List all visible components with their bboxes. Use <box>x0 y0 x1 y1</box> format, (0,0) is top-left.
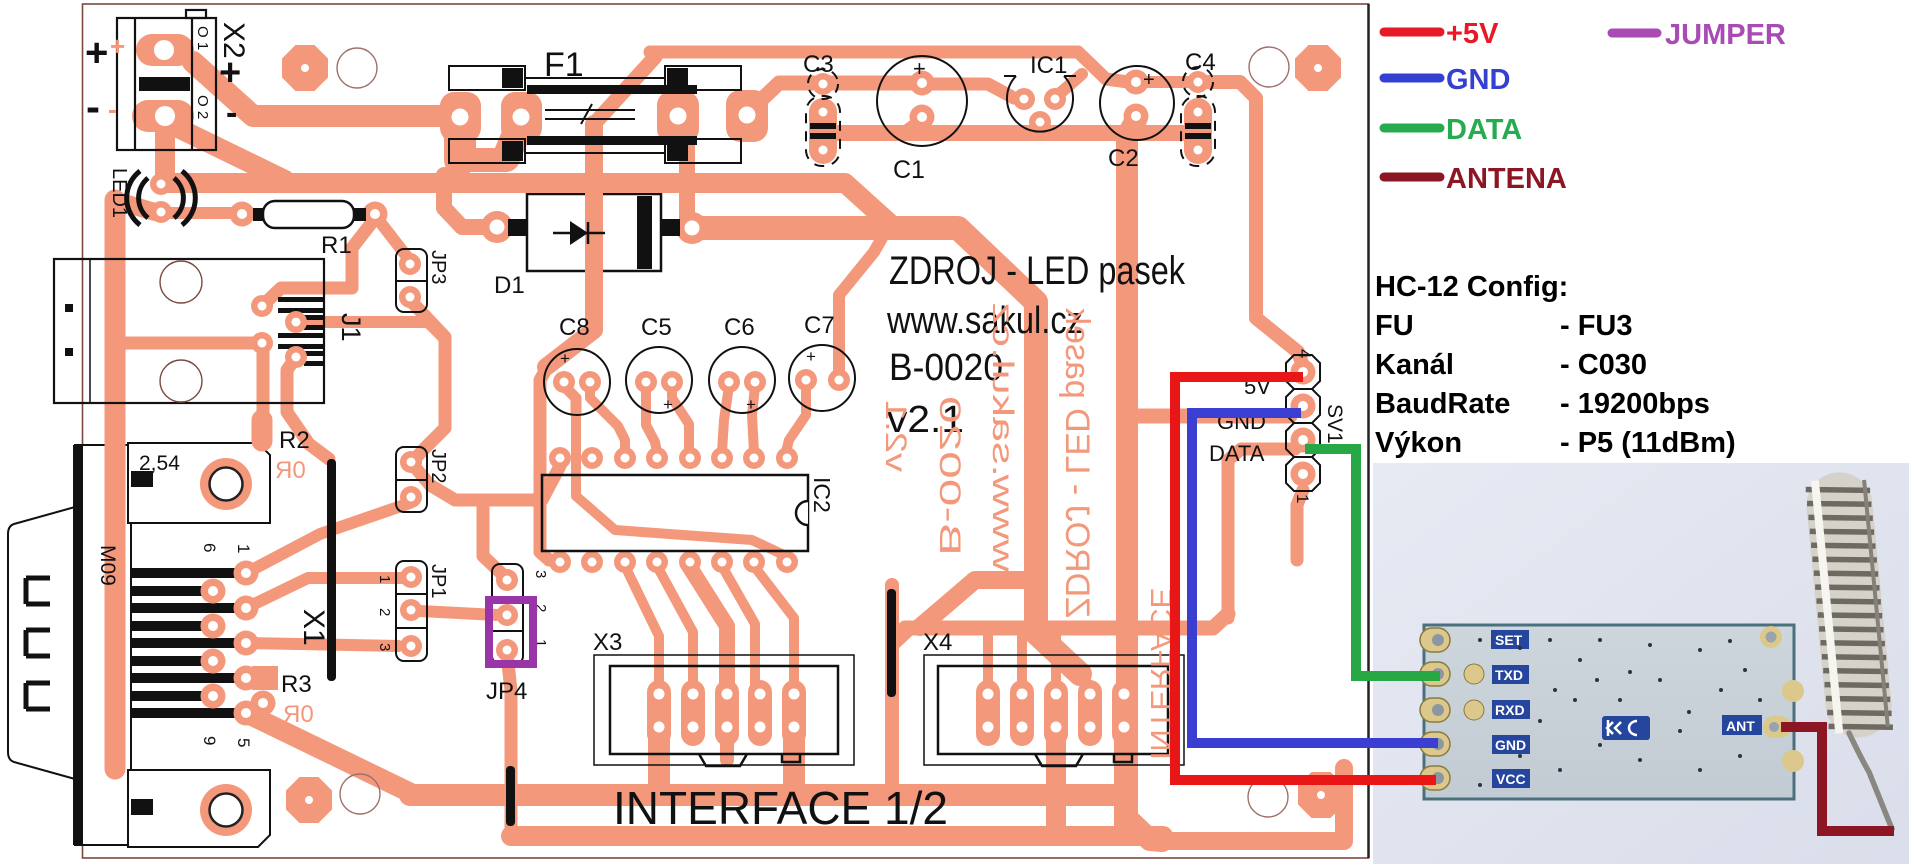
X1 bottom mounting tab <box>128 770 270 847</box>
svg-text:+: + <box>806 347 816 366</box>
wire X4 column stubs <box>983 630 993 684</box>
svg-text:JP1: JP1 <box>427 564 449 598</box>
wire D1 cathode big route to X4 <box>694 228 1080 674</box>
svg-text:3: 3 <box>532 570 549 578</box>
R3 pad square stub <box>252 666 278 690</box>
svg-text:9: 9 <box>200 736 219 745</box>
C1 outline <box>877 56 967 146</box>
svg-text:C8: C8 <box>559 314 590 341</box>
C8 pads <box>553 371 575 393</box>
wire top band y51 to C2 <box>650 52 1128 82</box>
wire branch down to JP4 pin3 <box>483 500 507 579</box>
wire fuse center diagonal to top band <box>594 57 655 124</box>
svg-text:SET: SET <box>1495 632 1523 648</box>
X4 connector outline <box>924 655 1184 765</box>
svg-text:C2: C2 <box>1108 145 1139 172</box>
svg-text:+: + <box>219 52 241 94</box>
legend GND <box>1384 74 1440 83</box>
wire center vertical to IC2 pin1 <box>540 366 549 560</box>
svg-text:JUMPER: JUMPER <box>1665 19 1786 51</box>
svg-text:C3: C3 <box>803 51 834 78</box>
JP4 pads <box>496 569 518 591</box>
F1 fuse pads <box>440 92 481 142</box>
svg-text:-: - <box>108 94 117 124</box>
wire LED1 to left vertical <box>124 203 155 212</box>
wire C8 stubs to IC2 <box>564 386 576 412</box>
svg-text:5: 5 <box>234 738 253 747</box>
wire JP2 bottom to IC2 <box>414 466 560 500</box>
svg-text:C7: C7 <box>804 312 835 339</box>
svg-text:+: + <box>110 31 125 61</box>
wire C5 stubs to IC2 <box>646 386 657 452</box>
wire F1 right lower rail <box>823 125 1190 141</box>
HC-12 module photo <box>1373 463 1909 864</box>
wire vertical between X3 and X4 <box>892 630 908 798</box>
svg-text:R3: R3 <box>281 671 312 698</box>
wire branch to J1 pad3 <box>115 337 262 350</box>
wire bottom rail 2 <box>511 826 1163 846</box>
HC-12 config text <box>1375 271 1736 459</box>
legend JUMPER <box>1612 29 1657 38</box>
wire minus rail horizontal y183 <box>165 183 897 230</box>
svg-text:O 1: O 1 <box>194 26 211 50</box>
svg-text:JP2: JP2 <box>427 449 449 483</box>
wire C1 to IC1 <box>930 84 1014 98</box>
svg-text:O 2: O 2 <box>194 95 211 119</box>
svg-text:B-0020: B-0020 <box>933 396 966 556</box>
C4 outline dashes <box>1183 67 1213 97</box>
connector J1 outline <box>54 259 324 403</box>
svg-text:1: 1 <box>376 575 393 583</box>
wire +V from X2 pad1 to fuse F1 <box>193 62 447 116</box>
wire GND to SV1 pin3 <box>1130 409 1290 424</box>
R3 pad <box>251 691 276 716</box>
svg-text:FU: FU <box>1375 310 1414 342</box>
IC2 pads top row <box>549 447 571 469</box>
svg-text:ANTENA: ANTENA <box>1446 163 1567 195</box>
X2 center black bar <box>139 77 190 91</box>
jumper JP2 outline <box>396 447 427 512</box>
svg-text:- C030: - C030 <box>1560 349 1647 381</box>
svg-text:BaudRate: BaudRate <box>1375 388 1510 420</box>
svg-text:M09: M09 <box>96 545 119 586</box>
legend DATA <box>1384 124 1440 133</box>
+5V red wire <box>1175 377 1436 780</box>
svg-text:X4: X4 <box>923 629 952 656</box>
GND blue wire <box>1192 413 1438 743</box>
wire X1 pin2 to JP1 pin1 <box>246 578 404 608</box>
jumper JP4 purple mark <box>489 600 533 664</box>
C7 pads <box>795 369 817 391</box>
svg-text:+: + <box>560 349 570 368</box>
svg-text:DATA: DATA <box>1209 441 1265 466</box>
svg-text:- FU3: - FU3 <box>1560 310 1633 342</box>
LED1 arcs <box>139 178 148 218</box>
wire JP1 pin2 to JP4 pin2 <box>420 611 497 615</box>
wire left vertical GND run <box>105 200 126 769</box>
X3 pads <box>647 680 671 746</box>
svg-text:LED1: LED1 <box>108 168 130 218</box>
svg-text:IC2: IC2 <box>809 477 835 513</box>
J1 pads <box>251 295 273 317</box>
svg-text:ZDROJ - LED pasek: ZDROJ - LED pasek <box>1058 307 1096 618</box>
svg-text:-: - <box>86 83 100 130</box>
wire D1 anode up to fuse pads <box>444 175 497 227</box>
svg-text:X3: X3 <box>593 629 622 656</box>
wire bottom rail 1 <box>410 784 1115 806</box>
svg-text:+: + <box>746 395 756 414</box>
X1 DB9 pads <box>234 561 259 586</box>
svg-text:1: 1 <box>234 544 253 553</box>
wire C2 to C4 <box>1148 76 1192 88</box>
svg-text:VCC: VCC <box>1496 771 1526 787</box>
X1 mounting rings <box>200 458 252 510</box>
svg-text:J1: J1 <box>336 313 366 342</box>
SV1 pads <box>1291 360 1316 385</box>
wire C7 left stub to IC2 <box>786 384 806 452</box>
svg-text:www.sakul.cz: www.sakul.cz <box>886 300 1083 342</box>
wire R1 to JP3 <box>377 218 408 258</box>
jumper JP1 outline <box>396 561 427 661</box>
bridge wire R2 (0R) <box>327 459 336 681</box>
spring antenna leg <box>1849 733 1892 829</box>
wire inside IC2 from C8 <box>576 410 786 556</box>
X2 terminal pads <box>136 34 194 66</box>
board frame right edge <box>1367 4 1370 858</box>
svg-text:0R: 0R <box>283 701 314 728</box>
svg-text:ZDROJ - LED pasek: ZDROJ - LED pasek <box>889 249 1186 293</box>
wire X1 pin1 diagonal <box>246 503 410 573</box>
X1 DB9 pin bars <box>131 568 246 718</box>
wire IC1 bottom stub <box>1035 120 1045 133</box>
svg-text:R2: R2 <box>279 427 310 454</box>
svg-text:F1: F1 <box>544 46 584 84</box>
wire JP4 pin1 down to rail <box>507 655 511 836</box>
svg-text:2,54: 2,54 <box>139 452 180 475</box>
svg-text:GND: GND <box>1495 737 1526 753</box>
legend +5V <box>1384 28 1440 37</box>
wire J1 pad2 to JP2 <box>296 322 445 339</box>
svg-text:0R: 0R <box>275 457 306 484</box>
svg-text:ANT: ANT <box>1726 718 1755 734</box>
svg-text:Kanál: Kanál <box>1375 349 1454 381</box>
SV1 header outline <box>1286 355 1320 491</box>
board frame <box>83 4 1369 858</box>
C2 pads <box>1124 70 1149 95</box>
module top-right hole <box>1760 626 1782 648</box>
wire IC1 to C2 <box>1057 74 1082 96</box>
svg-text:4: 4 <box>1295 349 1314 358</box>
wire IC2 to X3 col3 <box>689 566 727 684</box>
wire F1 left pads blob <box>444 122 476 160</box>
svg-text:C6: C6 <box>724 314 755 341</box>
IC2 outline <box>542 475 808 551</box>
bridge wire near JP4 <box>506 766 515 826</box>
C3 pads <box>812 73 834 95</box>
wire SV1 pin1 down <box>1297 490 1303 560</box>
svg-text:X1: X1 <box>297 609 330 646</box>
svg-text:+5V: +5V <box>1446 18 1499 50</box>
svg-text:- 19200bps: - 19200bps <box>1560 388 1710 420</box>
wire J1 pad4 elbow to R2 <box>287 360 329 459</box>
wire stub square end <box>252 420 273 441</box>
C2 outline <box>1100 66 1174 140</box>
svg-text:C1: C1 <box>893 156 925 184</box>
mounting hole circles <box>337 48 377 88</box>
svg-text:JP4: JP4 <box>486 678 527 705</box>
capacitor C5 outline <box>626 347 692 413</box>
diode D1 details <box>637 196 652 269</box>
svg-text:D1: D1 <box>494 272 525 299</box>
svg-text:-: - <box>226 94 237 132</box>
wire vertical upper stub behind bridge <box>885 585 899 645</box>
module gold vias <box>1464 664 1484 684</box>
wire X3 bottom stubs <box>648 735 670 791</box>
D1 pads <box>481 211 513 243</box>
wire F1 right to C1 top rail <box>757 83 916 104</box>
svg-text:Výkon: Výkon <box>1375 427 1462 459</box>
svg-text:R1: R1 <box>321 232 352 259</box>
wire C7 right pad up to main route <box>839 238 882 376</box>
wire LED1 to R1 <box>166 207 238 219</box>
IC2 pads bottom row <box>549 551 571 573</box>
wire IC2 to X3 col4 <box>722 566 755 688</box>
wire branch left at y580 <box>920 580 1036 627</box>
wire C3 stub <box>818 112 828 133</box>
JP2 pads <box>400 451 422 473</box>
C3 outline dashes <box>808 69 838 99</box>
svg-text:v2.1: v2.1 <box>879 400 912 472</box>
mirrored salmon texts <box>275 302 1177 760</box>
X1 shell trapezoid <box>8 507 75 779</box>
X3 connector outline <box>594 655 854 765</box>
capacitor C8 outline <box>544 349 610 415</box>
wire X1 pin5 to bottom rail <box>246 713 415 795</box>
wire X4 feed stub <box>1080 672 1090 690</box>
ANT pad <box>1763 716 1791 738</box>
bridge wire between X3 and X4 <box>887 589 896 697</box>
R1 pads <box>230 202 255 227</box>
svg-text:RXD: RXD <box>1495 702 1525 718</box>
svg-text:SV1: SV1 <box>1323 404 1346 444</box>
svg-text:+: + <box>913 56 926 81</box>
C1 pads <box>910 71 935 96</box>
svg-text:C5: C5 <box>641 314 672 341</box>
svg-text:www.sakul.cz: www.sakul.cz <box>986 302 1019 573</box>
HC logo <box>1602 716 1650 740</box>
svg-text:IC1: IC1 <box>1030 52 1067 79</box>
svg-text:2: 2 <box>376 608 393 616</box>
LED1 pads <box>150 173 172 195</box>
wire F1 to D1 cathode <box>679 140 695 226</box>
wire DATA horizontal <box>905 614 1228 628</box>
wire X1 pin3 to JP1 pin3 <box>246 643 398 646</box>
jumper JP3 outline <box>396 249 427 312</box>
module dots <box>1478 638 1762 787</box>
legend ANTENA <box>1384 173 1440 182</box>
svg-text:+: + <box>85 31 108 75</box>
svg-text:B-0020: B-0020 <box>889 347 1003 389</box>
svg-text:DATA: DATA <box>1446 114 1522 146</box>
svg-text:JP3: JP3 <box>427 250 449 284</box>
module board <box>1424 625 1794 799</box>
module labels <box>1491 630 1762 788</box>
wire stub to C2 pad <box>903 119 922 133</box>
svg-text:C4: C4 <box>1185 49 1216 76</box>
wire X2 pad2 down to LED1 <box>155 120 175 183</box>
wire J1 pad1 up to R1 <box>262 221 373 306</box>
svg-text:6: 6 <box>200 543 219 552</box>
wire IC2 to X3 col1 <box>625 566 659 684</box>
DATA green wire <box>1305 449 1440 676</box>
JP3 pads <box>399 253 421 275</box>
svg-text:GND: GND <box>1446 64 1510 96</box>
wire J1 pad3 stub down <box>257 343 270 418</box>
diode D1 body (under trace) <box>527 194 661 271</box>
svg-text:+: + <box>663 395 673 414</box>
X1 DB9 black details <box>73 445 83 845</box>
svg-text:1: 1 <box>1293 494 1312 503</box>
wire bottom right rail <box>1160 768 1344 841</box>
wire C6 stubs to IC2 <box>722 386 729 452</box>
capacitor C7 outline <box>789 345 855 411</box>
ANTENA dark red wire <box>1781 727 1894 831</box>
module left pads <box>1420 628 1450 790</box>
wire JP3 bottom down <box>410 300 445 461</box>
X4 pads <box>976 680 1000 746</box>
svg-text:- P5 (11dBm): - P5 (11dBm) <box>1560 427 1736 459</box>
wire IC2 to X3 col2 <box>657 566 693 684</box>
IC1 pads <box>1013 88 1035 110</box>
JP1 pads <box>400 566 422 588</box>
wire fuse/diode center vertical <box>546 124 594 367</box>
mounting octagon pads <box>282 45 328 91</box>
module right castellated pads <box>1782 680 1804 702</box>
terminal block X2 outline <box>117 10 216 150</box>
fuse F1 clips <box>449 66 741 163</box>
svg-text:TXD: TXD <box>1495 667 1523 683</box>
IC1 outline <box>1004 76 1076 132</box>
wire IC2 to X3 col5 <box>754 566 794 684</box>
wire C2 long GND vertical <box>1127 120 1162 841</box>
connector X1 DB9 body (under trace) <box>75 445 131 845</box>
spring antenna <box>1803 469 1894 740</box>
svg-text:INTERFACE 1/2: INTERFACE 1/2 <box>613 782 948 834</box>
wire C4 to SV1 pin4 (5V) <box>1204 82 1303 366</box>
capacitor C6 outline <box>709 347 775 413</box>
wire from X2 junction to diode D1 anode <box>170 124 285 180</box>
C5 pads <box>635 371 657 393</box>
J1 pin contacts <box>65 297 324 366</box>
svg-text:3: 3 <box>376 643 393 651</box>
resistor R1 body <box>263 201 354 228</box>
svg-text:HC-12 Config:: HC-12 Config: <box>1375 271 1568 303</box>
wire DATA vertical to SV1 pin2 <box>1228 449 1295 618</box>
svg-text:+: + <box>1143 69 1155 91</box>
C4 pads <box>1187 71 1209 93</box>
C6 pads <box>718 371 740 393</box>
X1 top mounting tab <box>128 443 270 523</box>
jumper JP4 outline <box>492 564 523 664</box>
